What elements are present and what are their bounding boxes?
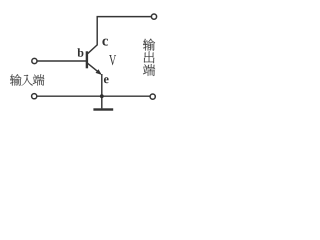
input terminal (bottom-left) xyxy=(32,94,37,99)
wire: bottom rail xyxy=(37,95,150,97)
pin label b xyxy=(77,48,83,56)
output terminal (bottom-right) xyxy=(150,94,155,99)
transistor designator V xyxy=(109,55,116,65)
wire: top horizontal to output xyxy=(97,16,152,18)
wire: emitter vertical xyxy=(101,74,103,96)
label: output terminal text 输出端 xyxy=(143,39,155,51)
label: input terminal text 输入端 xyxy=(10,74,22,85)
wire: ground stub xyxy=(101,96,103,108)
wire: emitter diagonal xyxy=(88,63,101,74)
junction node dot xyxy=(100,94,104,98)
wire: top input to base xyxy=(37,60,86,62)
pin label c xyxy=(102,39,108,46)
emitter arrowhead xyxy=(96,69,102,75)
pin label e xyxy=(104,77,109,83)
ground bar xyxy=(93,108,113,110)
wire: collector lead diagonal xyxy=(88,45,98,54)
input terminal (top-left) xyxy=(32,58,37,63)
transistor V base bar xyxy=(86,51,88,68)
wire: collector vertical xyxy=(96,17,98,46)
output terminal (top-right) xyxy=(151,14,156,19)
